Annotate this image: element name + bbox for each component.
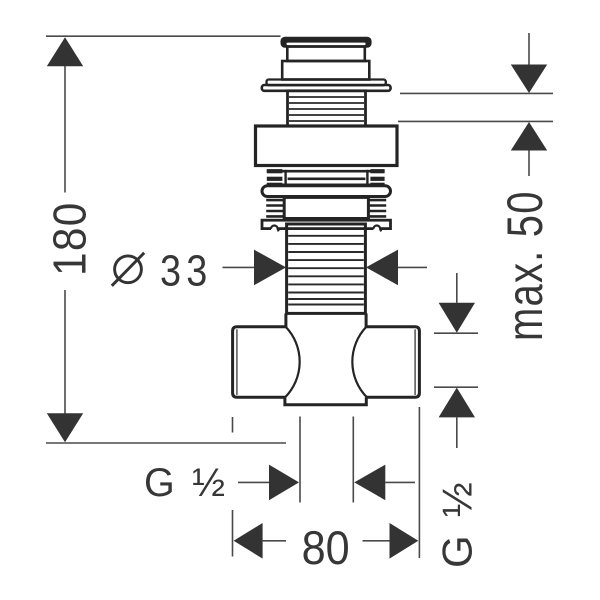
svg-text:G ½: G ½ [144,461,228,505]
dimension max.50: down arrow [511,65,547,94]
dimension diameter 33: right arrow pointing left [366,250,398,286]
section A left knurl bars [267,171,283,185]
section A right knurl bars [370,171,384,185]
right port thread dimension: upper leader [456,273,458,303]
dimension 80: right leader [363,540,390,542]
dimension diameter 33: left leader [223,266,255,268]
washer left notch [271,225,278,232]
dimension 180: dimension line upper segment [64,66,66,193]
dimension 80: left extension upper segment [232,417,234,433]
bottom G half dimension: right-pointing arrow [269,465,299,501]
dimension 80: right arrow [390,523,419,559]
dimension max.50: upper reference line [400,92,553,94]
section A vertical ticks [286,170,368,185]
svg-text:80: 80 [302,521,350,574]
step between shaft and body [286,313,366,327]
right port thread dimension: lower leader [456,417,458,448]
body concave right curve [352,327,366,397]
dimension 80: left arrow [234,523,263,559]
left port end cap line [236,329,238,395]
dimension 180: top extension line [46,35,281,37]
bottom outlet dimension: left extension line [299,417,301,503]
dimension max.50: lower reference line [398,120,553,122]
bottom outlet dimension: right extension line [352,417,354,503]
bottom G half dimension: leader right [385,481,415,483]
right port end cap line [414,329,416,395]
right port thread dimension: down arrow [439,303,475,333]
dimension 180: bottom extension line [46,442,286,444]
shaft thread lines [288,236,364,305]
neck thread lines [289,97,364,121]
stem upper section [287,47,365,62]
dimension 80: right extension line [418,407,420,558]
section C right knurl [368,200,386,216]
dimension 180: down arrow [47,413,83,442]
section C left knurl [266,200,284,216]
washer right notch [373,225,380,232]
smooth ring [262,186,391,197]
bottom outlet [285,397,366,405]
valve fixture: top cap button [281,37,372,48]
dimension diameter 33: phi symbol circle [115,256,142,283]
right port [366,327,420,398]
svg-text:G ½: G ½ [433,479,480,568]
dimension 180: dimension line lower segment [64,290,66,414]
bottom G half dimension: leader left [238,481,269,483]
dimension max.50: up arrow [511,122,547,151]
section A sleeve horizontal lines [267,171,385,185]
svg-text:max. 50: max. 50 [497,190,553,341]
dimension max.50: upper leader [528,33,530,65]
lock washer plate [262,220,391,228]
threaded shaft [287,224,366,313]
svg-text:180: 180 [45,201,96,276]
flange upper tier [267,80,386,86]
dimension diameter 33: right leader [398,266,427,268]
dimension diameter 33: left arrow pointing right [254,250,286,286]
left port [233,327,287,398]
section C middle band [284,197,368,218]
stem lower wider section [282,61,369,80]
body concave left curve [285,327,299,397]
dimension 180: up arrow [47,37,83,66]
threaded neck under flange [288,91,366,126]
flange lower wider tier [262,85,391,91]
right port thread dimension: up arrow [439,388,475,418]
dimension max.50: lower leader [528,151,530,177]
bottom G half dimension: left-pointing arrow [354,465,385,501]
dimension 80: left extension lower segment [232,510,234,557]
svg-text:33: 33 [160,246,212,295]
right port thread dimension: upper tick line [434,332,478,334]
right port thread dimension: lower tick line [434,386,478,388]
dimension 80: left leader [263,540,286,542]
mounting block [256,126,398,166]
dimension diameter 33: phi slash [112,253,144,286]
